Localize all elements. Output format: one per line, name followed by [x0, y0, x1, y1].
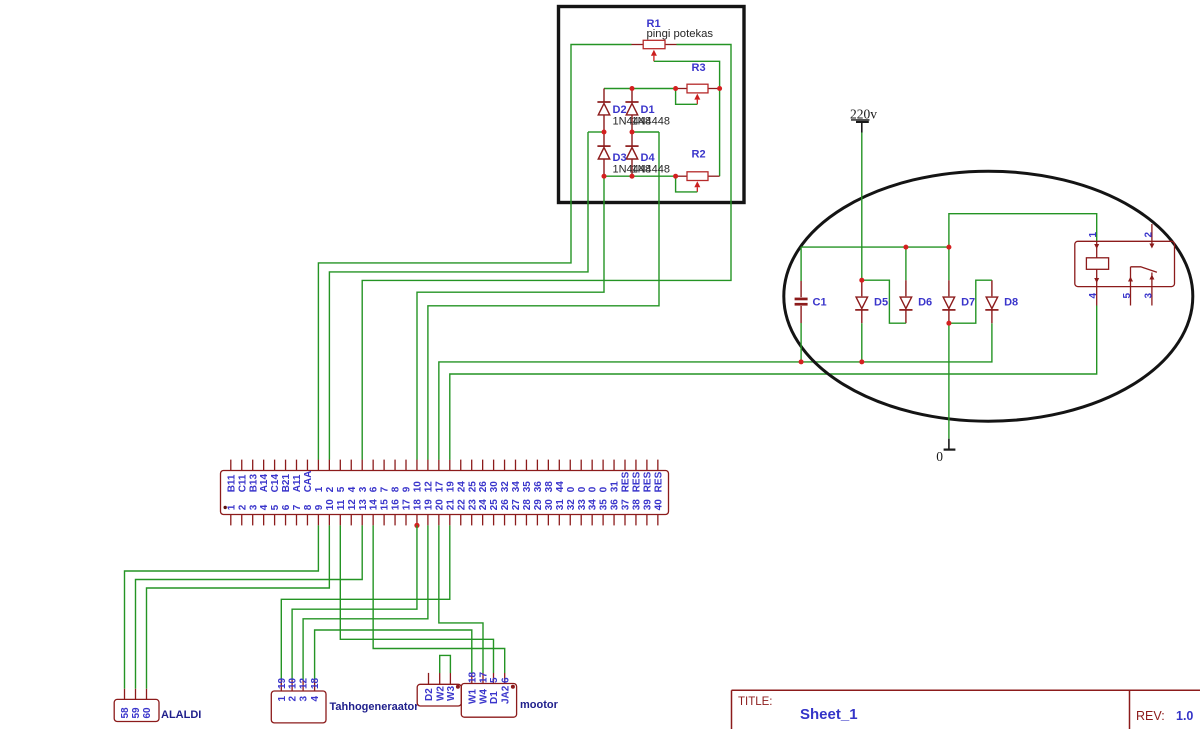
svg-text:pingi potekas: pingi potekas	[647, 28, 714, 40]
svg-text:18: 18	[310, 677, 321, 689]
svg-text:R3: R3	[692, 62, 706, 74]
svg-text:TITLE:: TITLE:	[738, 696, 773, 708]
svg-text:D5: D5	[874, 297, 888, 309]
svg-text:1N4448: 1N4448	[632, 164, 671, 176]
svg-text:59: 59	[131, 707, 142, 719]
svg-text:35: 35	[522, 481, 533, 493]
svg-text:3: 3	[248, 504, 259, 510]
svg-text:1: 1	[1088, 232, 1099, 238]
svg-text:mootor: mootor	[520, 699, 559, 711]
svg-text:5: 5	[489, 677, 500, 683]
svg-text:2: 2	[288, 696, 299, 702]
svg-text:12: 12	[347, 499, 358, 511]
svg-text:9: 9	[314, 504, 325, 510]
svg-text:11: 11	[336, 499, 347, 510]
svg-text:21: 21	[445, 499, 456, 511]
svg-text:4: 4	[310, 696, 321, 702]
svg-text:A14: A14	[259, 474, 270, 493]
svg-text:36: 36	[533, 481, 544, 493]
svg-text:17: 17	[434, 481, 445, 493]
svg-text:REV:: REV:	[1136, 709, 1165, 723]
svg-text:5: 5	[270, 504, 281, 510]
svg-text:32: 32	[500, 481, 511, 493]
svg-text:36: 36	[610, 499, 621, 511]
svg-text:24: 24	[456, 481, 467, 493]
svg-text:8: 8	[303, 504, 314, 510]
svg-text:12: 12	[299, 677, 310, 689]
svg-text:18: 18	[467, 671, 478, 683]
svg-text:D6: D6	[918, 297, 932, 309]
svg-text:0: 0	[599, 486, 610, 492]
svg-text:20: 20	[434, 499, 445, 511]
svg-text:19: 19	[424, 499, 435, 511]
svg-text:RES: RES	[653, 471, 664, 492]
svg-text:26: 26	[500, 499, 511, 511]
svg-text:1.0: 1.0	[1176, 709, 1193, 723]
svg-text:D4: D4	[641, 152, 656, 164]
svg-text:15: 15	[380, 499, 391, 511]
svg-text:37: 37	[621, 499, 632, 511]
svg-text:JA2: JA2	[500, 685, 511, 704]
svg-text:B11: B11	[226, 474, 237, 492]
svg-text:17: 17	[402, 499, 413, 511]
svg-text:3: 3	[299, 696, 310, 702]
svg-text:B21: B21	[281, 474, 292, 493]
svg-text:12: 12	[424, 481, 435, 493]
svg-text:RES: RES	[621, 471, 632, 492]
svg-text:27: 27	[511, 499, 522, 511]
svg-text:6: 6	[281, 504, 292, 510]
svg-text:60: 60	[142, 707, 153, 719]
svg-text:5: 5	[336, 486, 347, 492]
svg-text:38: 38	[632, 499, 643, 511]
svg-text:30: 30	[544, 499, 555, 511]
svg-text:2: 2	[325, 486, 336, 492]
svg-text:4: 4	[1088, 293, 1099, 299]
svg-text:6: 6	[500, 677, 511, 683]
svg-text:2: 2	[1143, 232, 1154, 238]
svg-text:3: 3	[358, 486, 369, 492]
svg-text:1N4448: 1N4448	[632, 116, 671, 128]
svg-text:0: 0	[577, 486, 588, 492]
svg-text:Tahhogeneraator: Tahhogeneraator	[330, 701, 420, 713]
svg-text:W4: W4	[479, 689, 490, 704]
svg-text:14: 14	[369, 499, 380, 511]
svg-text:0: 0	[588, 486, 599, 492]
svg-text:19: 19	[445, 481, 456, 493]
svg-text:Sheet_1: Sheet_1	[800, 706, 858, 723]
svg-text:W1: W1	[467, 689, 478, 704]
svg-text:40: 40	[653, 499, 664, 511]
svg-text:W3: W3	[446, 686, 457, 701]
svg-text:33: 33	[577, 499, 588, 511]
svg-text:7: 7	[292, 504, 303, 510]
svg-text:29: 29	[533, 499, 544, 511]
svg-text:D2: D2	[424, 688, 435, 701]
svg-text:D1: D1	[641, 104, 655, 116]
svg-text:0: 0	[936, 449, 943, 464]
svg-text:D3: D3	[613, 152, 627, 164]
svg-text:D1: D1	[489, 691, 500, 704]
svg-text:10: 10	[325, 499, 336, 511]
svg-text:D7: D7	[961, 297, 975, 309]
svg-text:34: 34	[588, 499, 599, 511]
svg-text:10: 10	[288, 677, 299, 689]
svg-text:4: 4	[259, 504, 270, 510]
svg-text:25: 25	[489, 499, 500, 511]
svg-text:9: 9	[402, 486, 413, 492]
svg-text:17: 17	[479, 671, 490, 683]
svg-text:C11: C11	[237, 474, 248, 492]
svg-text:24: 24	[478, 499, 489, 511]
svg-text:1: 1	[226, 504, 237, 510]
svg-text:22: 22	[456, 499, 467, 511]
svg-text:38: 38	[544, 481, 555, 493]
svg-text:39: 39	[643, 499, 654, 511]
svg-text:A11: A11	[292, 474, 303, 492]
svg-text:18: 18	[413, 499, 424, 511]
svg-text:D2: D2	[613, 104, 627, 116]
svg-text:16: 16	[391, 499, 402, 511]
svg-text:28: 28	[522, 499, 533, 511]
svg-text:5: 5	[1122, 293, 1133, 299]
svg-text:1: 1	[314, 486, 325, 492]
svg-text:0: 0	[566, 486, 577, 492]
svg-text:B13: B13	[248, 474, 259, 493]
svg-text:C1: C1	[813, 297, 827, 309]
svg-text:58: 58	[120, 707, 131, 719]
svg-text:R2: R2	[692, 149, 706, 161]
svg-text:35: 35	[599, 499, 610, 511]
svg-text:10: 10	[413, 481, 424, 493]
svg-text:C14: C14	[270, 474, 281, 493]
svg-text:ALALDI: ALALDI	[161, 709, 201, 721]
svg-text:13: 13	[358, 499, 369, 511]
svg-text:2: 2	[237, 504, 248, 510]
svg-text:31: 31	[555, 499, 566, 511]
svg-text:34: 34	[511, 481, 522, 493]
svg-text:44: 44	[555, 481, 566, 493]
svg-text:25: 25	[467, 481, 478, 493]
svg-text:W2: W2	[435, 686, 446, 701]
svg-text:30: 30	[489, 481, 500, 493]
svg-text:1: 1	[277, 696, 288, 702]
svg-text:CAA: CAA	[303, 471, 314, 493]
svg-text:32: 32	[566, 499, 577, 511]
svg-text:31: 31	[610, 481, 621, 493]
svg-text:D8: D8	[1004, 297, 1018, 309]
svg-text:8: 8	[391, 486, 402, 492]
svg-text:6: 6	[369, 486, 380, 492]
svg-text:RES: RES	[643, 471, 654, 492]
svg-text:19: 19	[277, 677, 288, 689]
svg-text:23: 23	[467, 499, 478, 511]
svg-text:4: 4	[347, 486, 358, 492]
svg-text:26: 26	[478, 481, 489, 493]
svg-text:7: 7	[380, 486, 391, 492]
svg-text:RES: RES	[632, 471, 643, 492]
svg-text:3: 3	[1143, 293, 1154, 299]
